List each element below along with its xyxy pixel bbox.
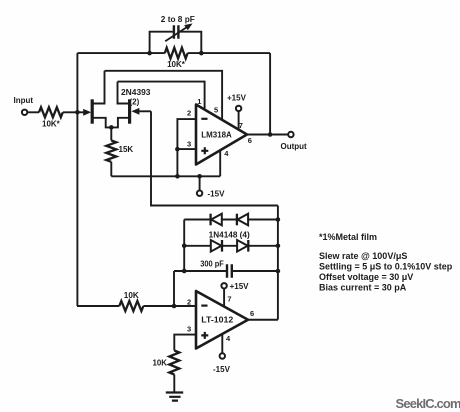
svg-text:300 pF: 300 pF — [200, 260, 224, 269]
transistor Q2 2N4393 right bar — [128, 99, 131, 123]
wire right vertical to output node — [269, 53, 271, 134]
terminal Output — [288, 132, 293, 137]
svg-text:10K: 10K — [124, 291, 139, 300]
wire node A to Q1 gate — [77, 111, 87, 113]
junction dot rail left cap-row — [182, 269, 187, 274]
wire -15V rail — [111, 175, 220, 177]
svg-text:LM318A: LM318A — [201, 130, 232, 139]
diode D2 1N4148 — [236, 214, 238, 226]
svg-text:+15V: +15V — [230, 282, 250, 291]
node S junction dot — [109, 125, 114, 130]
junction dot rail right top-row — [276, 217, 281, 222]
svg-text:6: 6 — [248, 136, 252, 145]
wire pin3 LT1012 — [174, 335, 196, 351]
wire diode box left rail — [183, 220, 185, 272]
capacitor C2 300 pF — [227, 264, 232, 278]
trimmer capacitor C1 arrow — [165, 26, 188, 41]
wire pin5 comp loop — [105, 71, 223, 120]
wire Q2 drain lead — [118, 82, 130, 104]
junction dot loop left — [147, 51, 152, 56]
svg-text:-15V: -15V — [208, 189, 226, 198]
wire R1 to node A — [63, 111, 77, 113]
terminal -15V LM318 — [197, 191, 202, 196]
wire cap row to pin2 node — [173, 271, 175, 306]
wire Q1 drain lead — [92, 71, 104, 104]
wire pin1 comp loop — [118, 82, 205, 110]
diode D4 1N4148 — [247, 240, 249, 252]
svg-text:5: 5 — [214, 105, 218, 114]
svg-text:Output: Output — [281, 142, 308, 151]
junction dot loop right — [199, 51, 204, 56]
terminal +15V LM318 — [236, 106, 241, 111]
wire pin4 LT1012 — [221, 334, 223, 353]
svg-text:7: 7 — [227, 294, 231, 303]
minus sign U2 — [201, 305, 207, 307]
trimmer capacitor C1 plates — [174, 25, 179, 39]
op-amp U1 LM318A — [196, 105, 247, 165]
terminal +15V LT1012 — [221, 283, 226, 288]
wire pin4 LM318 — [219, 150, 221, 176]
input terminal — [22, 110, 27, 115]
resistor R1 10K* input — [39, 107, 63, 117]
svg-text:15K: 15K — [119, 145, 134, 154]
junction dot rail right bottom-row — [276, 244, 281, 249]
svg-text:SeekIC.com: SeekIC.com — [396, 396, 460, 411]
svg-text:7: 7 — [239, 121, 243, 130]
wire trimmer loop — [150, 32, 202, 53]
svg-text:2N4393: 2N4393 — [121, 88, 151, 97]
wire pin3 LM318 — [177, 148, 196, 150]
svg-text:Offset voltage = 30 μV: Offset voltage = 30 μV — [319, 272, 413, 282]
wire R5 to ground — [173, 375, 175, 393]
minus sign U1 — [201, 118, 207, 120]
plus sign U2 — [201, 332, 208, 339]
wire R3 to -15V rail — [110, 162, 112, 177]
wire node S to R3 — [110, 127, 112, 140]
svg-text:6: 6 — [250, 309, 254, 318]
wire R4 to pin2 node — [143, 305, 174, 307]
wire Q2 source lead — [111, 118, 129, 128]
svg-text:10K: 10K — [153, 358, 168, 367]
transistor Q1 2N4393 left bar — [91, 99, 94, 123]
wire pin7 LT1012 — [223, 289, 225, 306]
svg-text:1N4148 (4): 1N4148 (4) — [209, 231, 250, 240]
svg-text:10K*: 10K* — [42, 119, 61, 128]
wire diode box right rail — [277, 206, 279, 320]
junction dot rail/pin23 — [175, 174, 180, 179]
arrow into Q2 gate — [131, 108, 139, 115]
svg-text:Settling = 5 μS to 0.1%10V ste: Settling = 5 μS to 0.1%10V step — [319, 262, 453, 272]
junction dot pin2 node — [172, 304, 177, 309]
junction dot rail/-15V — [197, 174, 202, 179]
diode D1 1N4148 — [209, 214, 211, 226]
svg-text:10K*: 10K* — [167, 60, 186, 69]
svg-text:+15V: +15V — [227, 93, 247, 102]
wire to -15V terminal — [199, 176, 201, 190]
svg-text:*1%Metal film: *1%Metal film — [319, 232, 377, 242]
wire U2 output — [248, 319, 278, 321]
diode D3 1N4148 — [221, 240, 223, 252]
svg-text:3: 3 — [187, 139, 191, 148]
svg-text:3: 3 — [187, 325, 191, 334]
wire left rail corner to R4 — [77, 305, 119, 307]
svg-text:LT-1012: LT-1012 — [201, 316, 233, 325]
junction dot rail left bottom-row — [182, 244, 187, 249]
svg-text:2 to 8 pF: 2 to 8 pF — [161, 15, 195, 24]
wire pin7 LM318 — [238, 112, 240, 130]
wire cap row — [174, 270, 278, 272]
svg-text:2: 2 — [187, 109, 191, 118]
wire top feedback — [77, 52, 270, 54]
wire diode top row — [184, 219, 278, 221]
svg-text:(2): (2) — [130, 97, 140, 106]
svg-text:2: 2 — [187, 297, 191, 306]
resistor R5 10K — [169, 351, 179, 375]
wire U1 output — [247, 134, 288, 136]
wire Q2 gate lead — [135, 110, 151, 112]
svg-text:-15V: -15V — [213, 365, 231, 374]
resistor R3 15K — [106, 141, 116, 162]
wire input to R1 — [28, 111, 39, 113]
wire pin2 LM318 — [177, 119, 196, 176]
wire diode bottom row — [184, 245, 278, 247]
ground — [166, 393, 183, 401]
svg-text:Input: Input — [14, 96, 34, 105]
svg-text:Slew rate @ 100V/μS: Slew rate @ 100V/μS — [319, 251, 407, 261]
plus sign U1 — [201, 147, 208, 154]
terminal -15V LT1012 — [220, 353, 225, 358]
arrow into Q1 gate — [83, 109, 91, 116]
wire Q2 gate to lower network — [151, 111, 278, 205]
junction dot pin3 — [175, 147, 180, 152]
wire Q1 source lead — [92, 118, 111, 128]
resistor R2 10K* feedback — [165, 48, 188, 59]
svg-text:Bias current = 30 pA: Bias current = 30 pA — [319, 282, 407, 292]
wire pin2 LT1012 — [174, 305, 196, 307]
node A junction dot — [75, 110, 80, 115]
wire left rail — [76, 53, 78, 306]
junction dot rail right cap-row — [276, 269, 281, 274]
op-amp U2 LT-1012 — [196, 291, 248, 349]
resistor R4 10K — [119, 301, 143, 311]
junction dot output — [268, 132, 273, 137]
